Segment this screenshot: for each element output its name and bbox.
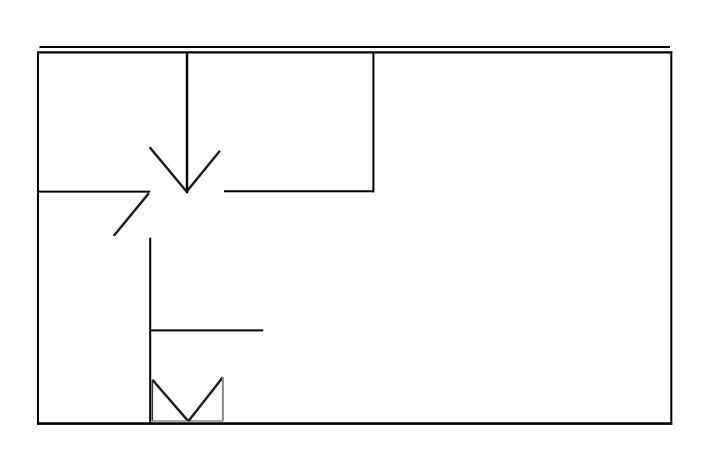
wall outer bottom (37, 422, 672, 425)
fixture left triangle vertical edge (151, 380, 153, 421)
wall interior vertical right of arrow (372, 52, 374, 192)
door leaf diagonal (114, 193, 149, 236)
fixture right triangle hypotenuse (188, 377, 223, 421)
wall interior vertical lower-left (149, 238, 151, 423)
fixture right triangle vertical edge (222, 377, 224, 421)
wall outer left (37, 51, 39, 424)
arrow right arm (187, 151, 220, 192)
wall interior horizontal left (37, 191, 150, 193)
fixture base line (152, 420, 224, 422)
arrow left arm (150, 147, 187, 191)
wall interior horizontal stub (150, 329, 263, 331)
fixture left triangle hypotenuse (152, 380, 188, 421)
wall interior horizontal right (224, 190, 373, 192)
wall outer top (37, 51, 672, 53)
wall top second line (40, 46, 671, 48)
wall interior vertical center-top (186, 53, 188, 193)
wall outer right (670, 51, 672, 424)
